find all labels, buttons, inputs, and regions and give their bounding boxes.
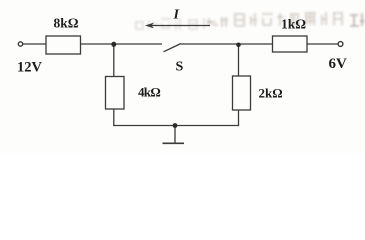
current arrow I line bbox=[147, 25, 210, 27]
junction node A bbox=[111, 42, 116, 47]
wire R4k to bottom rail bbox=[113, 109, 115, 126]
current arrow I head bbox=[145, 23, 154, 29]
svg-text:2kΩ: 2kΩ bbox=[259, 86, 283, 101]
ground stem bbox=[174, 126, 176, 144]
resistor 1k box bbox=[273, 36, 308, 52]
svg-text:1kΩ: 1kΩ bbox=[281, 17, 306, 32]
bleed-through ink marks behind arrow bbox=[135, 18, 213, 30]
bottom rail wire bbox=[113, 125, 239, 127]
resistor 2k box bbox=[233, 76, 251, 110]
svg-text:S: S bbox=[176, 60, 184, 75]
svg-text:6V: 6V bbox=[329, 56, 348, 72]
svg-text:12V: 12V bbox=[17, 60, 43, 76]
ground bar bbox=[163, 142, 185, 144]
junction node ground bbox=[173, 123, 178, 128]
wire terminal to R 8k bbox=[23, 43, 46, 45]
terminal right 6V bbox=[338, 42, 343, 47]
wire switch to R1k bbox=[181, 43, 273, 45]
wire R1k to terminal right bbox=[307, 43, 338, 45]
resistor 8k box bbox=[46, 36, 81, 54]
svg-text:I: I bbox=[173, 8, 180, 23]
svg-text:8kΩ: 8kΩ bbox=[54, 16, 79, 31]
bleed-through ink marks top right bbox=[207, 12, 365, 27]
switch S blade bbox=[164, 44, 182, 52]
junction node B bbox=[236, 43, 241, 48]
resistor 4k box bbox=[106, 77, 125, 110]
wire node A down to R4k bbox=[113, 44, 115, 77]
wire node B down to R2k bbox=[238, 44, 240, 76]
wire R8k to switch bbox=[81, 43, 163, 45]
terminal left 12V bbox=[18, 42, 22, 46]
svg-text:4kΩ: 4kΩ bbox=[138, 85, 160, 100]
wire R2k to bottom rail bbox=[238, 110, 240, 126]
